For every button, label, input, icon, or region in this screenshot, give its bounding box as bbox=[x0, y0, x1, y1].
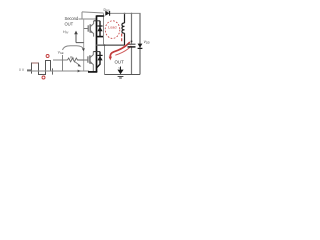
arrow VDD (down triangle) bbox=[138, 44, 143, 48]
wire second-out corner bbox=[79, 12, 97, 19]
svg-text:VDD: VDD bbox=[144, 40, 150, 45]
svg-text:HIN: HIN bbox=[63, 30, 68, 35]
rail left (DC link) bbox=[131, 13, 133, 74]
transistor Q1 (top IGBT) bbox=[84, 21, 94, 37]
pulse1 top red tinge bbox=[32, 62, 38, 64]
svg-text:0 V: 0 V bbox=[19, 68, 25, 72]
Q1 emitter arrow bbox=[91, 30, 94, 33]
red current swoosh bbox=[110, 42, 130, 57]
svg-text:Second: Second bbox=[65, 16, 79, 21]
gate loop diagonal arrow bbox=[75, 62, 80, 66]
marker red circle 2 bbox=[42, 76, 45, 79]
svg-text:Load: Load bbox=[108, 26, 116, 30]
wire main black rail bbox=[96, 15, 98, 72]
junction dots bbox=[103, 15, 105, 17]
inductor L (load) bbox=[124, 13, 126, 23]
node black stub top bbox=[97, 15, 104, 17]
wire emitter return bbox=[27, 70, 89, 72]
waveform pulse train bbox=[27, 61, 51, 75]
diode D2 (bottom freewheel, black) bbox=[97, 52, 100, 68]
gray gate-loop arc arrow bbox=[63, 46, 84, 50]
node bar bottom cell bbox=[93, 51, 100, 53]
rail right (VDD feed) bbox=[139, 13, 141, 74]
out stub + down arrow bbox=[120, 67, 122, 71]
return black segment bbox=[88, 71, 97, 73]
Q2 emitter arrow bbox=[90, 61, 93, 64]
ground ticks bbox=[118, 76, 124, 78]
wire gray drop A (load branch) bbox=[103, 14, 105, 46]
wire bottom ground bus bbox=[105, 74, 141, 76]
red arrowhead down bbox=[109, 57, 112, 61]
wire left gate rail bbox=[83, 19, 85, 71]
svg-text:OUT: OUT bbox=[65, 21, 74, 26]
diode D1 (top freewheel, black) bbox=[99, 21, 101, 37]
return current arrowhead bbox=[78, 70, 81, 73]
wire top DC bus bbox=[82, 12, 141, 14]
diode D_BS on bus bbox=[105, 11, 109, 16]
wire switch-node mid bbox=[97, 44, 125, 46]
plus tick bbox=[52, 68, 54, 74]
arrow up gate feed bbox=[76, 34, 84, 43]
node black stub mid bbox=[97, 36, 104, 38]
resistor RG zigzag bbox=[68, 58, 84, 62]
load ellipse (red dashed) bbox=[105, 21, 120, 39]
junction dot above cap bbox=[131, 40, 133, 42]
svg-text:OUT: OUT bbox=[115, 60, 125, 65]
svg-text:DBS: DBS bbox=[104, 8, 110, 13]
marker red circle 1 bbox=[46, 55, 49, 58]
transistor Q2 (bottom IGBT) bbox=[84, 52, 94, 72]
wire gray drop B (out branch) bbox=[104, 45, 106, 75]
red dashed arrow along inductor bbox=[121, 34, 123, 44]
wire gate drive bbox=[53, 59, 68, 61]
node bar top cell bbox=[94, 20, 100, 22]
source VGE vertical bbox=[62, 55, 64, 71]
capacitor C (DC link) bbox=[128, 43, 136, 45]
svg-text:VGE: VGE bbox=[58, 51, 64, 56]
